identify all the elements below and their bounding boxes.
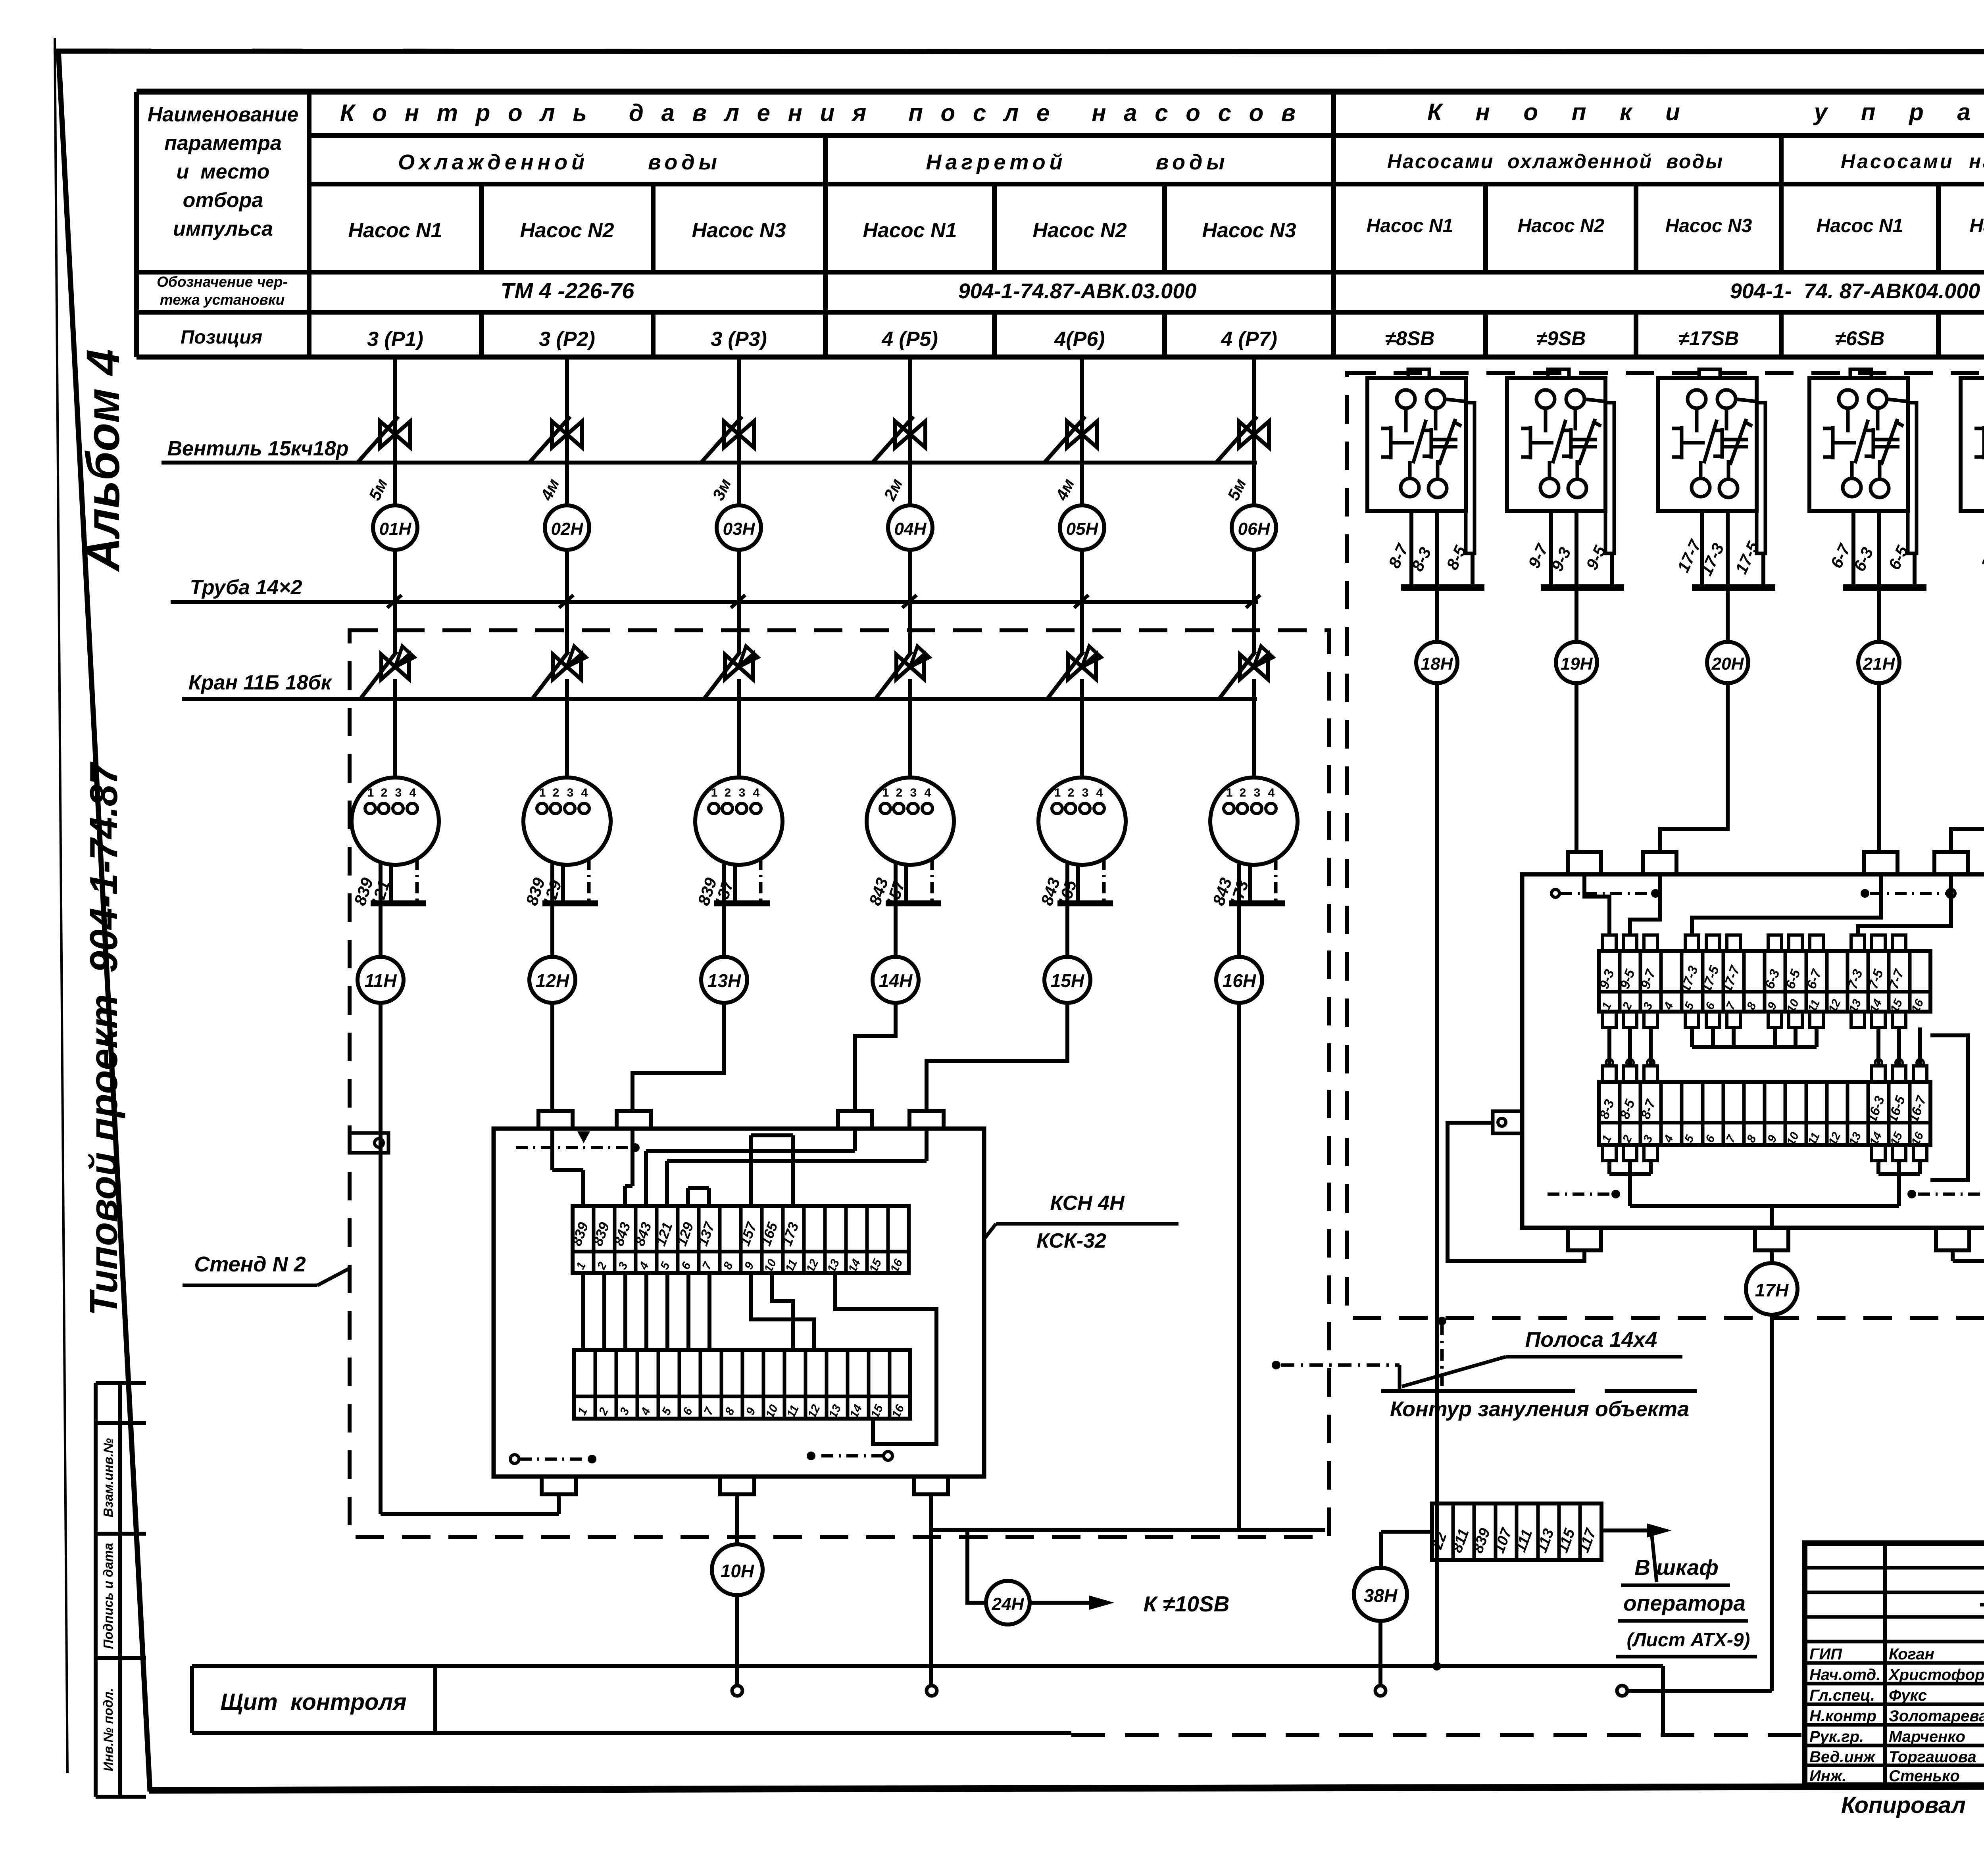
contact stubs [1846,408,1850,432]
svg-text:2: 2 [1068,786,1075,799]
svg-text:Инв.№ подл.: Инв.№ подл. [101,1688,115,1771]
wires to terminal bar [1851,511,1855,588]
contact NC [1521,427,1530,430]
svg-text:15Н: 15Н [1051,970,1084,991]
box bottom tabs [542,1477,576,1494]
svg-text:21Н: 21Н [1863,654,1896,674]
cable circle 38Н [1354,1568,1407,1621]
terminal bar [1401,584,1484,591]
svg-text:12Н: 12Н [536,970,569,991]
contact stubs [1404,408,1408,432]
svg-text:Полоса 14х4: Полоса 14х4 [1525,1328,1657,1352]
box 5 internal wiring [1584,874,1609,935]
svg-text:Наименование: Наименование [148,103,299,126]
svg-text:14Н: 14Н [879,970,913,991]
cable circle 14Н [873,957,919,1003]
pressure gauge P3 [695,778,782,865]
wire box left tab down [1448,1123,1584,1261]
terminal on panel for 10Н [732,1686,742,1696]
box side tabs [1493,1111,1522,1133]
box bottom tabs [1568,1228,1601,1250]
wire [894,903,898,957]
svg-text:К о н т р о л ь д а в л е н: К о н т р о л ь д а в л е н и я п о с л … [340,100,1301,126]
box top tabs [538,1111,573,1129]
svg-text:Кран 11Б 18бк: Кран 11Б 18бк [188,671,333,694]
terminal bar [1541,584,1624,591]
svg-text:Копировал Генюк: Копировал Генюк [1841,1792,1984,1818]
svg-text:тежа установки: тежа установки [160,292,285,308]
pipe tick [731,595,745,608]
svg-text:и место: и место [177,160,270,183]
push button station SB2 [1548,369,1569,378]
valve V6 (Вентиль 15кч18р) [1239,421,1269,447]
valve V5 (Вентиль 15кч18р) [1067,421,1097,447]
wire 19Н to box [1575,683,1578,852]
svg-text:2: 2 [1240,786,1246,799]
tap K1 (Кран 11Б18бк) [381,655,409,679]
wire [379,903,383,957]
terminal box КСН 5Н КСК-32 [1522,874,1984,1228]
svg-text:К н о п к и у п р а в л е: К н о п к и у п р а в л е н и я [1427,99,1984,125]
svg-text:2: 2 [725,786,731,799]
pressure gauge P1 [352,778,439,865]
sheet paper edge left [55,38,67,1773]
strip 2 stubs [1603,1066,1616,1082]
contact NC [1381,427,1391,430]
svg-text:01Н: 01Н [379,519,412,539]
wire column 3 stem [737,357,741,505]
instrument circle 04Н [888,505,932,550]
instrument circle 01Н [373,505,417,550]
svg-text:02Н: 02Н [551,519,584,539]
wire 11Н to box bottom tab [379,1003,383,1514]
terminal strip 2 of КСН 5Н [1599,1082,1930,1145]
instrument circle 03Н [717,505,761,550]
wire [737,550,741,655]
svg-text:03Н: 03Н [723,519,756,539]
terminal strip to operator [1432,1503,1601,1560]
svg-text:2: 2 [381,786,388,799]
svg-text:Взам.инв.№: Взам.инв.№ [101,1438,115,1517]
dashed enclosure Стенд N3 [1347,373,1984,1318]
wire [737,679,741,778]
svg-text:18Н: 18Н [1421,654,1453,674]
svg-text:1: 1 [1054,786,1061,799]
contact NC [1823,427,1833,430]
contact NO [1713,429,1722,432]
push button station SB1 [1408,369,1429,378]
svg-text:11Н: 11Н [365,970,397,991]
svg-text:Марченко: Марченко [1889,1728,1965,1745]
wire [393,550,397,655]
wire [908,550,912,655]
terminal strip 1 of КСН 5Н [1599,951,1930,1012]
cable circle 13Н [701,957,747,1003]
tap K6 (Кран 11Б18бк) [1240,655,1268,679]
svg-text:24Н: 24Н [992,1594,1025,1614]
tap K2 (Кран 11Б18бк) [553,655,581,679]
terminal on panel for 38Н [1375,1686,1386,1696]
cable circle 16Н [1216,957,1262,1003]
cable circle 17Н [1746,1263,1798,1315]
svg-text:Типовой проект 904-1-74.87: Типовой проект 904-1-74.87 [82,761,125,1316]
svg-text:05Н: 05Н [1066,519,1099,539]
svg-text:Стенд N 2: Стенд N 2 [194,1252,306,1276]
tap K3 (Кран 11Б18бк) [725,655,753,679]
svg-text:≠9SB: ≠9SB [1536,327,1586,349]
ground clamp on wire 11Н [350,1133,388,1153]
svg-text:Насосами нагретой воды: Насосами нагретой воды [1841,150,1984,173]
gauge tails [1065,864,1069,903]
wires to terminal bar [1409,511,1413,588]
valve V3 (Вентиль 15кч18р) [724,421,754,447]
wire [565,679,569,778]
wire column 4 stem [908,357,912,505]
svg-text:1: 1 [1226,786,1233,799]
svg-text:отбора: отбора [183,189,263,212]
svg-text:4: 4 [925,786,931,799]
svg-text:параметра: параметра [164,132,282,155]
svg-text:4 (Р7): 4 (Р7) [1221,328,1277,351]
svg-text:(Лист АТХ-9): (Лист АТХ-9) [1627,1630,1750,1651]
svg-text:Насос N2: Насос N2 [1518,215,1605,236]
gauge tails [722,864,726,903]
svg-text:20Н: 20Н [1711,654,1744,674]
terminal bar [714,901,770,906]
strip 1 stubs [1603,935,1616,951]
instrument circle 02Н [545,505,589,550]
wire box to 10Н [735,1494,739,1544]
svg-text:К ≠10SB: К ≠10SB [1144,1592,1230,1616]
svg-text:Насос N2: Насос N2 [1970,215,1984,236]
wire [908,679,912,778]
svg-text:3: 3 [739,786,746,799]
terminal strip 1 of КСН 4Н [573,1206,909,1273]
arrow to operator cabinet [1601,1528,1647,1532]
svg-text:оператора: оператора [1623,1591,1746,1615]
tap K5 (Кран 11Б18бк) [1068,655,1096,679]
svg-text:Стенько: Стенько [1889,1767,1960,1785]
svg-text:В шкаф: В шкаф [1634,1555,1719,1580]
svg-text:Охлажденной воды: Охлажденной воды [398,150,721,174]
wire 15Н to box top tab [927,1003,1067,1111]
cable circle 18Н [1435,588,1439,642]
svg-text:38Н: 38Н [1364,1585,1398,1606]
svg-text:Насос N2: Насос N2 [520,219,614,242]
svg-text:Обозначение чер-: Обозначение чер- [157,274,288,290]
pressure gauge P5 [1038,778,1126,865]
contact NC [1974,427,1984,430]
wire [550,903,554,957]
ground mark top [516,1146,631,1149]
svg-text:Насос N3: Насос N3 [692,219,786,242]
terminal on panel for 17Н [1617,1686,1627,1696]
svg-text:Нагретой воды: Нагретой воды [926,150,1229,174]
pressure gauge P2 [523,778,611,865]
pipe tick [387,595,402,608]
svg-text:импульса: импульса [173,217,273,240]
gauge tails [550,864,554,903]
valve V4 (Вентиль 15кч18р) [895,421,925,447]
svg-text:ГИП: ГИП [1809,1646,1842,1663]
wire [565,550,569,655]
table top line to corner [136,89,1984,94]
svg-text:Насос N1: Насос N1 [1817,215,1903,236]
svg-text:1: 1 [882,786,889,799]
wire column 1 stem [393,357,397,505]
wire 13Н to box top tab [632,1003,724,1111]
control panel Щит контроля [192,1664,1663,1668]
bottom collection to 17Н [1607,1161,1611,1174]
svg-text:4: 4 [1268,786,1275,799]
wire 12Н to box top tab [550,1003,554,1111]
wire [1252,679,1256,778]
cable circle 12Н [529,957,575,1003]
title block main [1805,1543,1984,1785]
svg-text:Труба 14×2: Труба 14×2 [190,576,302,599]
svg-text:≠6SB: ≠6SB [1835,327,1885,349]
svg-text:3 (Р3): 3 (Р3) [711,328,767,351]
terminal bar [1057,901,1113,906]
terminal box КСН 4Н КСК-32 [494,1129,984,1477]
wire [1252,550,1256,655]
svg-text:Фукс: Фукс [1889,1687,1927,1704]
svg-text:Щит контроля: Щит контроля [220,1689,406,1715]
svg-text:3: 3 [1082,786,1089,799]
svg-text:Альбом 4: Альбом 4 [77,349,129,572]
svg-text:4(Р6): 4(Р6) [1054,328,1105,351]
svg-text:Христофоров: Христофоров [1888,1666,1984,1684]
svg-text:Коган: Коган [1889,1646,1934,1663]
svg-text:Насос N2: Насос N2 [1033,219,1127,242]
tap K4 (Кран 11Б18бк) [896,655,924,679]
svg-text:Вентиль 15кч18р: Вентиль 15кч18р [167,437,349,460]
svg-text:3 (Р2): 3 (Р2) [539,328,595,351]
pressure gauge P6 [1210,778,1298,865]
svg-text:4: 4 [1096,786,1103,799]
wire [393,679,397,778]
instrument circle 06Н [1232,505,1276,550]
box internal wiring [550,1129,554,1170]
terminal bar [1843,584,1926,591]
push button station SB3 [1699,369,1720,378]
svg-text:КСК-32: КСК-32 [1036,1229,1106,1252]
pipe tick [559,595,573,608]
svg-text:3: 3 [395,786,402,799]
terminal bar [886,901,941,906]
wire 21Н to box [1877,683,1881,852]
wire 22Н to box [1951,683,1984,852]
svg-text:2: 2 [896,786,903,799]
svg-text:Насос N3: Насос N3 [1202,219,1296,242]
svg-text:Насос N3: Насос N3 [1665,215,1752,236]
svg-text:904-1- 74. 87-АВК04.000: 904-1- 74. 87-АВК04.000 [1730,279,1980,303]
wire 16Н down [1237,1003,1241,1530]
svg-text:Насос N1: Насос N1 [1367,215,1453,236]
svg-text:Рук.гр.: Рук.гр. [1809,1728,1864,1745]
svg-text:Нач.отд.: Нач.отд. [1809,1666,1880,1684]
cable circle 24Н [986,1581,1030,1624]
svg-text:04Н: 04Н [894,519,927,539]
svg-text:≠17SB: ≠17SB [1678,327,1739,349]
svg-text:13Н: 13Н [707,970,741,991]
terminal bar [1229,901,1285,906]
svg-text:Торгашова: Торгашова [1889,1748,1976,1766]
svg-text:4 (Р5): 4 (Р5) [881,328,938,351]
pipe tick [902,595,917,608]
contact NO [1865,429,1873,432]
wire box right tab down [1951,1250,1955,1261]
svg-text:КСН 4Н: КСН 4Н [1050,1192,1125,1215]
contact stubs [1695,408,1699,432]
svg-text:ТМ 4 -226-76: ТМ 4 -226-76 [501,278,635,303]
svg-text:2: 2 [553,786,559,799]
valve V2 (Вентиль 15кч18р) [552,421,582,447]
wires to terminal bar [1549,511,1553,588]
svg-text:4: 4 [753,786,760,799]
cable circle 19Н [1575,588,1578,642]
svg-text:19Н: 19Н [1561,654,1593,674]
wire box to 24Н and 16Н junction [929,1494,933,1530]
contact NC [1672,427,1682,430]
svg-text:Контур зануления объекта: Контур зануления объекта [1390,1397,1689,1421]
terminal strip 2 of КСН 4Н [574,1350,910,1419]
wire box to 17Н [1770,1250,1774,1263]
wire column 5 stem [1080,357,1084,505]
svg-text:1: 1 [367,786,374,799]
svg-text:Золотарева: Золотарева [1889,1707,1984,1725]
ground mark bottom right [884,1452,892,1460]
push button station SB4 [1850,369,1871,378]
pipe tick [1074,595,1088,608]
svg-text:10Н: 10Н [721,1561,754,1581]
svg-text:Инж.: Инж. [1809,1767,1847,1785]
wire [1080,679,1084,778]
gauge tails [1237,864,1241,903]
wire [722,903,726,957]
svg-text:Н.контр: Н.контр [1809,1707,1876,1725]
frame border bottom [149,1785,1984,1790]
wire column 2 stem [565,357,569,505]
cable circle 11Н [358,957,404,1003]
dash-dot drop from stand 3 [1438,1317,1446,1325]
svg-text:1: 1 [539,786,546,799]
terminal bar [542,901,598,906]
svg-text:4: 4 [581,786,588,799]
wire column 6 stem [1252,357,1256,505]
ground marks box 5 [1551,889,1559,897]
pipe tick [1246,595,1260,608]
wire valve header line [161,461,1257,465]
cable circle 10Н [712,1544,763,1595]
terminal bar [371,901,426,906]
wire pipe line [171,600,1258,604]
wire tap header line [182,697,1257,701]
valve V1 (Вентиль 15кч18р) [380,421,410,447]
svg-text:06Н: 06Н [1238,519,1271,539]
svg-text:Насос N1: Насос N1 [348,219,442,242]
pressure gauge P4 [867,778,954,865]
svg-text:904-1-74.87-АВК.03.000: 904-1-74.87-АВК.03.000 [958,279,1197,303]
svg-text:Вед.инж: Вед.инж [1809,1748,1876,1766]
left stamp column [94,1383,98,1797]
ground mark bottom left [510,1455,519,1463]
contact stubs [1544,408,1548,432]
gauge tails [379,864,383,903]
wire 14Н to box top tab [855,1003,896,1111]
wire 18Н down to panel [1435,683,1439,1666]
wire [1080,550,1084,655]
terminal on panel for 24Н [927,1686,937,1696]
frame border top [54,51,1984,52]
svg-text:3: 3 [910,786,917,799]
svg-text:17Н: 17Н [1755,1280,1789,1300]
contact NO [1423,429,1431,432]
instrument circle 05Н [1060,505,1104,550]
wire to 24Н [967,1530,986,1603]
dashed enclosure Стенд N2 [350,630,1329,1537]
svg-text:Насосами охлажденной воды: Насосами охлажденной воды [1387,150,1724,173]
wire [1237,903,1241,957]
contact NO [1562,429,1571,432]
wire 20Н to box [1660,683,1728,852]
frame border left [58,50,150,1792]
cable circle 21Н [1877,588,1881,642]
box top tabs [1568,852,1601,874]
arrow to 10SB [1030,1601,1089,1605]
svg-text:3 (Р1): 3 (Р1) [367,328,423,351]
svg-text:16Н: 16Н [1223,970,1256,991]
svg-text:Гл.спец.: Гл.спец. [1809,1687,1875,1704]
ground tie line Полоса 14х4 [1272,1361,1280,1369]
svg-text:Насос N1: Насос N1 [863,219,957,242]
wires to terminal bar [1700,511,1704,588]
terminal bar [1692,584,1775,591]
svg-text:3: 3 [1254,786,1261,799]
header table grid [136,90,1984,95]
svg-text:4: 4 [409,786,416,799]
gauge tails [894,864,898,903]
svg-text:1: 1 [711,786,718,799]
svg-text:≠8SB: ≠8SB [1385,327,1435,349]
cable circle 20Н [1726,588,1730,642]
cable circle 15Н [1044,957,1090,1003]
wire [1065,903,1069,957]
wire strip to 38Н [1381,1530,1432,1534]
svg-text:3: 3 [567,786,574,799]
svg-text:Подпись и дата: Подпись и дата [101,1543,115,1649]
svg-text:Позиция: Позиция [181,327,262,348]
